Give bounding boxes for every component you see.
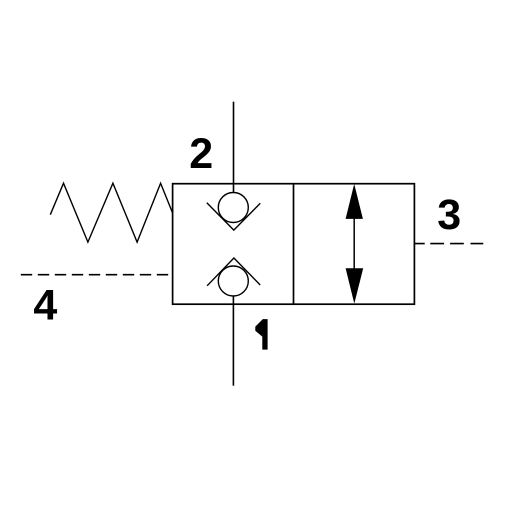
arrowhead down: [346, 268, 364, 303]
svg-text:4: 4: [33, 282, 57, 330]
svg-text:2: 2: [189, 130, 213, 178]
svg-text:3: 3: [437, 191, 461, 239]
check valve ball bottom: [218, 266, 248, 296]
wire port 1 line: [232, 296, 234, 386]
check valve seat top: [207, 203, 260, 230]
check valve ball top: [218, 193, 248, 223]
check valve seat bottom: [207, 258, 260, 286]
pilot line port 3 (dashed): [414, 243, 483, 245]
pilot line port 4 (dashed): [21, 274, 168, 276]
arrowhead up: [346, 184, 363, 219]
arrow shaft: [353, 217, 355, 270]
spring: [50, 183, 172, 242]
valve body outline: [173, 184, 415, 305]
valve body center divider: [293, 184, 295, 305]
wire port 2 line: [233, 102, 235, 193]
label port 1: [255, 319, 267, 350]
